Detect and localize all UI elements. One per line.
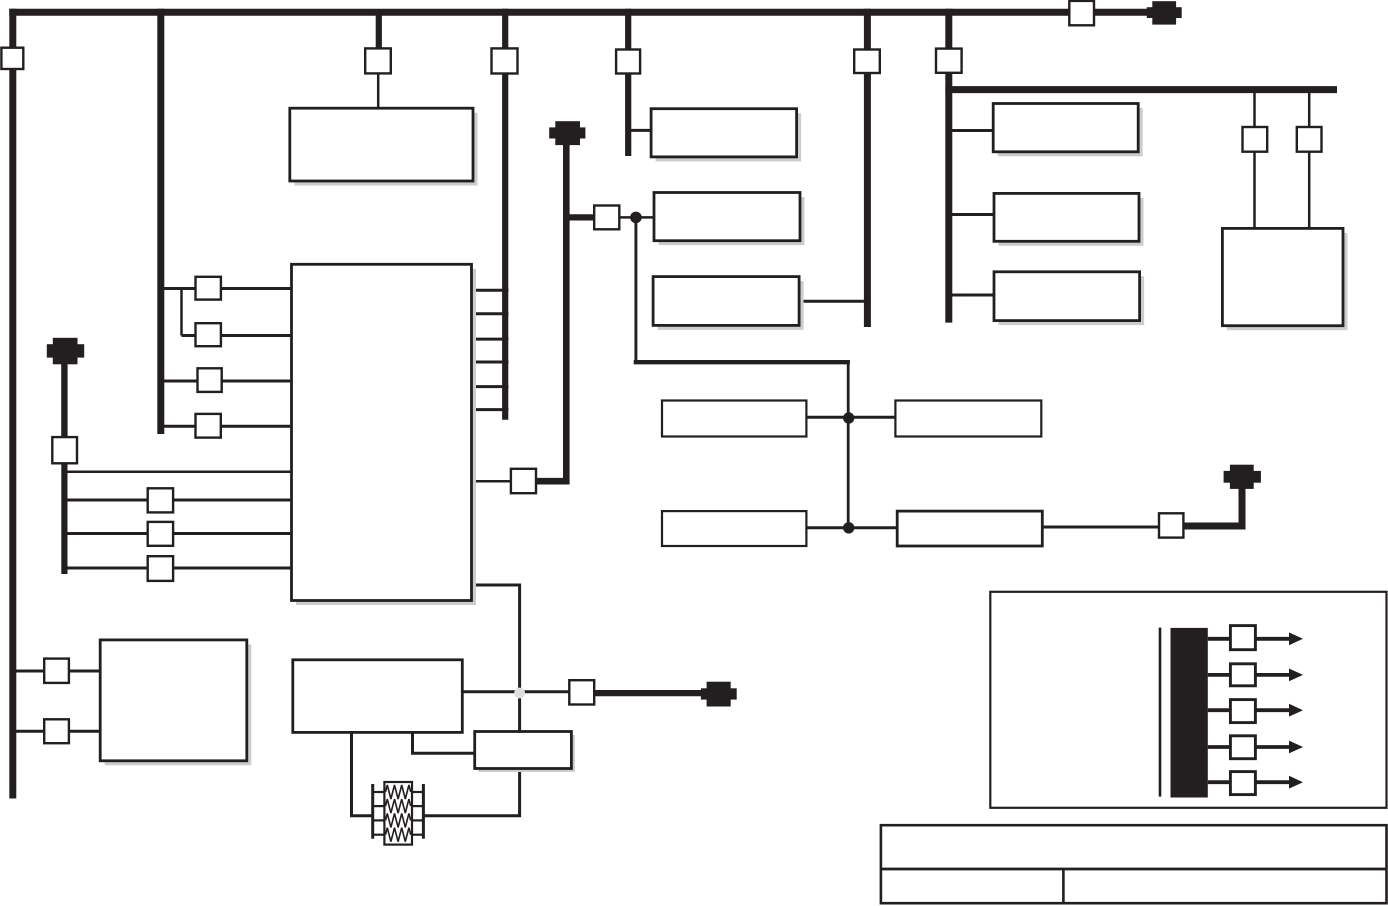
legend arrow row 1 [1208,626,1303,650]
wire: vertical bus B [157,9,164,434]
component box: box F (shadow) [658,281,804,330]
wire: left stem row2 [64,499,292,502]
wire: vertical bus C (pin ladder rail) [502,9,508,420]
wire: left plug stem upper [61,361,67,439]
plug connector: center upper (black) [549,121,585,145]
component box: box E (shadow) [659,197,805,245]
wire: plug stem with elbow to connector square (center) [535,143,566,481]
wire: top main bus [9,9,1149,16]
wire: connector square to top box [377,72,380,109]
inline connector: on bus C [492,48,518,73]
resistor pack: rung stubs row 4 [373,834,424,836]
inline connector: on top bus right [1069,1,1094,25]
wire: mid row2 link [806,526,898,529]
wire: left bus to box K row2 [14,730,101,733]
wire: mid row2 to inline connector [1042,526,1161,529]
wire: left stem row3 [64,532,292,535]
component box: box A [993,104,1138,152]
resistor pack: left rail [371,784,374,839]
inline connector: on left plug stem [52,437,77,463]
resistor element R1 zigzag [386,785,411,799]
title block: horizontal divider [881,868,1387,871]
wire: pin ladder rung 3 [472,338,509,341]
wire: central box bottom elbow down [472,585,520,731]
junction dot: mid row2 [843,522,854,533]
component box: box K bottom-left (shadow) [105,644,252,765]
component box: box B [994,193,1139,241]
wire: drop line 2 to box G [1308,150,1311,230]
wire: bus B row3 [161,380,292,383]
wire: box M left drop to resistor pack [352,732,374,816]
inline connector: on stub to top box [365,48,391,73]
inline connector: drop line 2 [1297,127,1322,152]
wire: drop to junction dots [847,360,850,528]
inline connector: mid row2 right [1159,513,1183,537]
inline connector: bus B row4 [196,414,221,438]
inline connector: center plug branch [594,206,619,230]
legend arrow row 4 [1208,736,1303,759]
wire: stub from top bus to connector square [376,12,382,50]
component box: box K bottom-left [100,640,247,761]
wire: box M drop to small box S [413,732,476,753]
inline connector: left stem row2 [148,488,173,512]
inline connector: on left bus top [1,48,23,69]
component box: central control unit (shadow) [296,269,476,605]
component box: box C [994,272,1140,321]
component box: box G right (shadow) [1227,233,1348,330]
wire: second horizontal bus [945,86,1337,93]
resistor element R2 zigzag [386,799,411,813]
wire: pin ladder rung 4 [472,361,509,364]
resistor element R3 zigzag [386,813,411,827]
component box: box E [654,193,800,241]
wire: left bus to box K row1 [14,670,101,673]
component box: mid row1 left [662,401,806,437]
plug connector: left (black) [47,338,84,365]
wire: pin ladder rung 6 [472,408,509,411]
component box: box C (shadow) [999,276,1145,325]
wire: drop line 1 to box G [1253,150,1256,230]
component box: box A (shadow) [998,108,1143,156]
wire: left vertical bus [9,9,16,799]
wire: through small box down to resistor pack [423,769,519,816]
legend box frame [990,592,1386,808]
wire: long L-run rightward [634,360,850,364]
component box: top module (shadow) [294,113,477,186]
legend arrow row 5 [1208,772,1303,795]
wire: stub to box C [951,294,995,297]
junction dot: mid row1 [843,412,854,423]
wire: jog down from row1 [180,289,183,336]
inline connector: on bus F [936,49,962,73]
component box: box B (shadow) [999,198,1144,246]
wire: stub to box A [951,129,994,132]
resistor pack: rung stubs row 3 [373,819,424,821]
wire: vertical bus E [864,9,871,327]
inline connector: bus B row2 [196,323,221,346]
component box: box D (shadow) [656,113,802,161]
inline connector: bus B row3 [198,368,222,392]
inline connector: central box right [511,469,536,493]
component box: top module [290,108,473,181]
wire: row to box via bus B row1 [161,287,292,290]
wire: stub to box B [951,213,995,216]
wire: vertical bus F [945,9,952,323]
wire: vertical bus D [625,9,631,156]
component box: mid row2 right [897,511,1042,546]
wire: mid row1 link [806,416,897,419]
wire: bus B row4 [161,425,292,428]
wire: stub bus D to box D [631,129,653,132]
wire: drop from junction [634,220,637,361]
resistor pack: rung stubs row 1 [373,791,424,793]
wire: left stem row4 [64,567,292,570]
legend arrow row 2 [1208,664,1303,686]
component box: box D [651,109,797,157]
junction dot: center branch [630,212,642,224]
legend: thin vertical line [1159,628,1162,797]
junction dot: gray (box M output) [514,688,525,699]
wire: pin ladder rung 1 [472,289,509,292]
resistor pack: enclosure [384,782,412,845]
wire: drop line 1 from second bus [1253,91,1256,130]
wire: pin ladder rung 2 [472,312,509,315]
wire: thick lead to right plug [593,690,703,696]
inline connector: box M output [569,680,594,704]
title block: vertical divider [1062,869,1065,903]
legend: black bar [1171,628,1208,798]
wire: bus B row2 [182,334,293,337]
wire: pin ladder rung 5 [472,385,509,388]
inline connector: on bus E [854,50,880,74]
component box: central control unit [292,264,472,600]
component box: box F [653,277,799,326]
inline connector: box K row2 [44,719,69,743]
legend arrow row 3 [1208,700,1303,723]
title block: outer frame [881,825,1387,903]
wire: central box to inline connector (right) [472,480,513,483]
wire: left stem row1 [64,471,292,474]
resistor element R4 zigzag [386,828,411,842]
wire: left plug stem lower [61,462,67,574]
plug connector: top right (black) [1147,1,1182,24]
component box: box M bottom-middle [293,660,463,733]
wire: plug branch to inline connector [566,214,595,220]
plug connector: bottom middle (black) [701,682,737,707]
inline connector: on bus D [616,50,640,74]
component box: box G right [1222,228,1343,325]
component box: mid row2 left [662,511,806,546]
wire: thick lead with elbow to mid-right plug [1182,488,1242,526]
inline connector: drop line 1 [1243,127,1268,152]
resistor pack: right rail [422,784,425,839]
inline connector: box K row1 [44,659,69,683]
component box: mid row1 right [895,401,1041,437]
wire: drop line 2 from second bus [1308,91,1311,130]
wire: box M to junction and connector [462,690,571,693]
wire: connector to junction to box E [619,216,656,219]
component box: small box S [475,732,572,769]
resistor pack: rung stubs row 2 [373,805,424,807]
inline connector: left stem row3 [148,522,173,546]
inline connector: bus B row1 [196,277,221,300]
inline connector: left stem row4 [148,556,173,581]
plug connector: mid right (black) [1224,465,1261,489]
component box: small box S (shadow) [478,735,575,772]
wire: stub box F to bus E [799,300,867,303]
